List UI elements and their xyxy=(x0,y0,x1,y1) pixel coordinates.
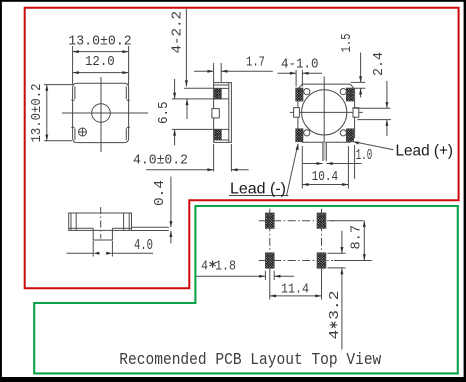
VIEW-C bottom view square outline xyxy=(298,84,355,142)
VIEW-C hole circle bottom-right xyxy=(340,130,346,136)
dim 2.4 extension lines xyxy=(354,108,391,119)
VIEW-D bottom seam lines xyxy=(69,227,132,229)
arrow 2.2 up xyxy=(186,99,189,105)
dim 4x1.8 dimension segments xyxy=(196,275,294,277)
svg-text:0.4: 0.4 xyxy=(152,180,168,206)
VIEW-E pcb pad top-right xyxy=(317,213,326,228)
arrow dim13 right xyxy=(122,50,128,53)
arrow 6.5 top xyxy=(173,93,176,99)
VIEW-C lead wires xyxy=(323,142,326,161)
arrow 4x1.8 right xyxy=(274,275,280,278)
dim 13.0 left extension lines xyxy=(44,85,72,141)
svg-text:6.5: 6.5 xyxy=(156,102,172,125)
dim 13.0 left dimension line xyxy=(46,85,48,141)
VIEW-A small hole cross xyxy=(78,128,87,137)
VIEW-D end cap lines xyxy=(71,213,129,230)
VIEW-E horizontal centerline row2 xyxy=(259,260,333,262)
arrow 11.4 right xyxy=(315,294,321,297)
arrow 4-1.0 left xyxy=(290,72,296,75)
dim 4x3.2 extension lines xyxy=(328,253,346,268)
page border bottom xyxy=(0,377,466,382)
VIEW-C hole circle top-right xyxy=(340,89,346,95)
dim 1.7 extension lines xyxy=(214,63,222,82)
dim 4-2.2 extension line xyxy=(184,87,214,89)
VIEW-A horizontal centerline xyxy=(62,112,148,114)
arrow 2.4 down xyxy=(385,102,388,108)
svg-text:Lead (-): Lead (-) xyxy=(230,181,286,198)
VIEW-C left side tab xyxy=(294,108,300,118)
svg-text:4.0±0.2: 4.0±0.2 xyxy=(133,152,188,168)
VIEW-C right side tab xyxy=(353,108,359,118)
arrow dim12 right xyxy=(122,71,128,74)
VIEW-E vertical centerline col2 xyxy=(321,209,323,274)
dim 10.4 extension lines xyxy=(302,145,354,189)
dim 6.5 extension lines xyxy=(172,99,214,129)
arrow 2.4 up xyxy=(385,120,388,126)
dim 1.5 extension lines xyxy=(351,82,366,88)
VIEW-D plate extension lines right xyxy=(132,227,169,230)
arrow 4x1.8 left xyxy=(259,275,265,278)
lead wire fill xyxy=(324,142,326,160)
dim 4x1.8 extension lines xyxy=(265,271,274,280)
dim 4-1.0 extension lines xyxy=(296,70,302,87)
VIEW-A front view body outline xyxy=(73,83,129,142)
dim 4.0pm dimension segments xyxy=(146,169,249,171)
dim 1.5 dimension segments xyxy=(360,53,362,98)
svg-text:4-1.0: 4-1.0 xyxy=(281,56,319,72)
arrow 4-1.0 right xyxy=(302,72,308,75)
VIEW-C corner pad top-left xyxy=(296,88,303,101)
dim 12.0 dimension line xyxy=(73,72,129,74)
VIEW-E pcb pad top-left xyxy=(266,213,275,228)
leader Lead minus xyxy=(287,144,298,196)
leader Lead plus xyxy=(355,142,394,150)
VIEW-C hole circle top-left xyxy=(304,89,310,95)
svg-text:10.4: 10.4 xyxy=(312,169,339,185)
svg-text:8.7: 8.7 xyxy=(348,225,364,250)
svg-text:Recomended PCB Layout Top View: Recomended PCB Layout Top View xyxy=(119,351,382,370)
arrow 0.4 up xyxy=(169,231,172,237)
VIEW-A small hole circle xyxy=(79,128,87,136)
arrow dim12 left xyxy=(73,71,79,74)
arrow 1.5 up xyxy=(359,88,362,94)
svg-text:1.7: 1.7 xyxy=(246,55,265,71)
arrow 4-2.2 down xyxy=(185,80,188,86)
dim 10.4 dimension line xyxy=(302,184,348,186)
star glyph 4x3.2 xyxy=(330,322,337,328)
Lead minus underline xyxy=(229,195,289,197)
dim 4-1.0 dimension segments xyxy=(278,72,323,74)
dim 8.7 extension lines xyxy=(329,221,372,261)
arrow dim13 left xyxy=(73,50,79,53)
arrow 0.4 down xyxy=(169,221,172,227)
dim lead 1.0 dimension segments xyxy=(303,163,362,165)
svg-text:12.0: 12.0 xyxy=(85,54,115,70)
dim 4-2.2 lower arrow tail xyxy=(186,99,188,119)
VIEW-B top inner line xyxy=(214,84,229,86)
arrow 1.7 right xyxy=(221,70,227,73)
VIEW-A inner wall lines xyxy=(75,87,126,141)
VIEW-D profile body outline xyxy=(69,213,132,230)
VIEW-C corner pad bottom-left xyxy=(296,129,303,142)
svg-text:Lead (+): Lead (+) xyxy=(396,142,454,159)
dim 0.4 dimension segments xyxy=(170,177,172,244)
VIEW-E vertical centerline col1 xyxy=(269,209,271,274)
VIEW-B pad edge lines across body xyxy=(214,88,229,129)
VIEW-A sound hole circle xyxy=(92,104,111,123)
VIEW-B side view body xyxy=(214,83,232,143)
arrow 8.7 bottom xyxy=(363,254,366,260)
arrow 4x3.2 up xyxy=(340,268,343,274)
red zone outline xyxy=(25,8,459,289)
svg-text:13.0±0.2: 13.0±0.2 xyxy=(68,34,131,50)
arrow 10.4 left xyxy=(302,183,308,186)
svg-text:1.5: 1.5 xyxy=(339,34,355,53)
svg-text:2.4: 2.4 xyxy=(371,52,387,76)
svg-text:4.0: 4.0 xyxy=(134,237,153,254)
page border top xyxy=(0,0,466,2)
arrow leader minus xyxy=(296,144,299,151)
arrow 4.0pm right xyxy=(231,168,237,171)
VIEW-E horizontal centerline row1 xyxy=(259,220,333,222)
page border right xyxy=(464,0,466,382)
VIEW-C vertical centerline xyxy=(323,77,325,152)
VIEW-B middle tab xyxy=(212,109,219,118)
dim 4.0 dimension segments xyxy=(67,252,154,254)
svg-text:11.4: 11.4 xyxy=(281,282,309,298)
VIEW-E pcb pad bottom-right xyxy=(317,253,326,268)
dim 13.0 top dimension line xyxy=(73,51,129,53)
VIEW-B bottom pad hatched xyxy=(214,129,221,140)
arrow 4.0 right xyxy=(106,252,112,255)
dim 1.7 dimension line segments xyxy=(194,70,273,72)
svg-text:13.0±0.2: 13.0±0.2 xyxy=(29,84,45,143)
arrow leader plus xyxy=(353,142,360,145)
svg-text:4 3.2: 4 3.2 xyxy=(327,291,343,340)
dim 11.4 extension lines xyxy=(270,274,322,300)
dim 2.4 dimension segments xyxy=(386,81,388,136)
VIEW-A vertical centerline xyxy=(100,77,102,152)
dim 4-2.2 leader line xyxy=(185,9,187,87)
green zone outline xyxy=(34,206,458,373)
dim 11.4 dimension line xyxy=(270,295,322,297)
dim 4.0pm extension lines xyxy=(214,144,232,172)
page border left xyxy=(0,0,2,382)
dim 6.5 dimension segments xyxy=(174,79,176,145)
arrow dim13L bottom xyxy=(45,135,48,141)
svg-text:1.0: 1.0 xyxy=(356,147,373,164)
VIEW-D centerline dash-dot xyxy=(100,207,102,239)
VIEW-C corner pad bottom-right xyxy=(347,129,354,142)
arrow lead1.0 left xyxy=(317,162,323,165)
arrow lead1.0 right xyxy=(327,162,333,165)
arrow 10.4 right xyxy=(342,183,348,186)
dim 4x3.2 dimension segments xyxy=(341,231,343,350)
arrow 4x3.2 down xyxy=(340,247,343,253)
arrow dim13L top xyxy=(45,85,48,91)
VIEW-C corner pad top-right xyxy=(347,88,354,101)
arrow 11.4 left xyxy=(270,294,276,297)
VIEW-C horizontal centerline xyxy=(290,111,363,113)
svg-text:4 1.8: 4 1.8 xyxy=(201,258,236,274)
star glyph 4x1.8 xyxy=(209,261,215,268)
dim 8.7 dimension line xyxy=(363,221,365,261)
arrow 4.0 left xyxy=(93,252,99,255)
VIEW-B top pad hatched xyxy=(214,88,221,99)
arrow 8.7 top xyxy=(363,221,366,227)
arrow 6.5 bottom xyxy=(173,129,176,135)
arrow 1.5 down xyxy=(359,76,362,82)
arrow 1.7 left xyxy=(207,70,213,73)
dim 4.0 extension lines xyxy=(93,241,112,257)
VIEW-D foot outline xyxy=(93,228,112,240)
VIEW-A notch ticks xyxy=(71,100,130,127)
VIEW-B bottom inner line xyxy=(214,139,229,141)
arrow 4.0pm left xyxy=(207,168,213,171)
VIEW-C speaker circle xyxy=(302,90,347,135)
VIEW-B lid seam vertical xyxy=(228,83,230,143)
dim 13.0 top extension lines xyxy=(73,46,129,85)
svg-text:4-2.2: 4-2.2 xyxy=(170,11,186,54)
VIEW-C hole circle bottom-left xyxy=(304,130,310,136)
VIEW-E pcb pad bottom-left xyxy=(266,253,275,268)
